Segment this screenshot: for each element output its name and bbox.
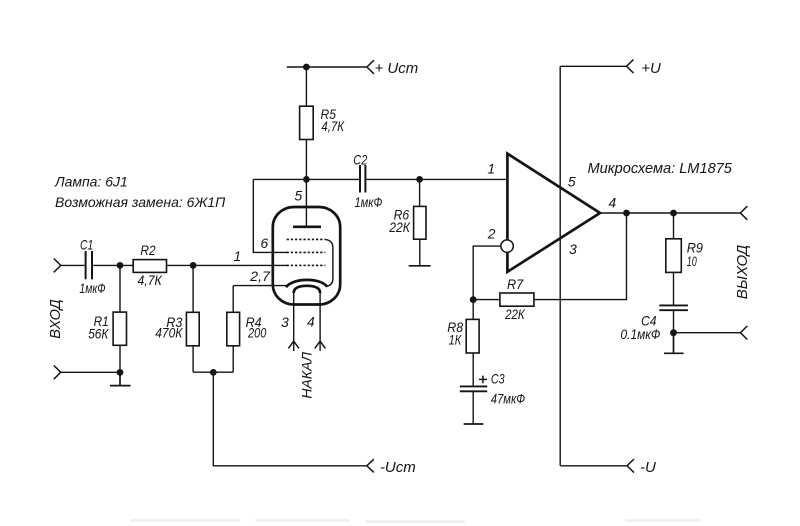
capacitor C4	[659, 305, 688, 310]
wire C2 to node G	[366, 178, 419, 180]
wire R7 to node H	[473, 299, 500, 301]
svg-text:2: 2	[487, 227, 496, 242]
capacitor C3 (electrolytic)	[460, 386, 487, 391]
wire +U	[560, 65, 626, 67]
wire C4 to node K	[673, 310, 675, 333]
tube grid g3 (dashed row)	[287, 238, 326, 240]
wire feedback from node I to R7	[534, 213, 627, 300]
terminal input upper	[54, 259, 61, 273]
svg-text:2,7: 2,7	[249, 269, 271, 284]
terminal -U	[627, 459, 634, 473]
terminal +Ust	[367, 60, 374, 74]
capacitor C2	[360, 165, 365, 193]
svg-text:+U: +U	[641, 60, 661, 77]
node B (R2/R3/grid junction)	[190, 262, 197, 269]
resistor R6	[414, 179, 426, 265]
node K (C4/output lower junction)	[670, 329, 677, 336]
wire R3 bottom to node D	[193, 371, 213, 373]
op-amp U1 triangle	[507, 154, 600, 272]
svg-text:НАКАЛ: НАКАЛ	[299, 352, 315, 399]
wire node B to tube pin 1 (control grid)	[193, 264, 288, 266]
wire -U	[560, 465, 627, 467]
terminal output lower	[740, 326, 747, 340]
wire node K to lower output terminal	[674, 332, 741, 334]
wire R2 to node B	[167, 264, 194, 266]
svg-text:1: 1	[487, 161, 495, 176]
tube anode plate	[293, 225, 321, 228]
node A (C1/R2/R1 junction)	[117, 262, 124, 269]
wire anode line left segment	[253, 178, 359, 180]
wire tube pin 5 (anode lead)	[305, 179, 307, 225]
terminal output upper	[740, 206, 747, 220]
wire R4 bottom to node D	[213, 371, 233, 373]
svg-text:1К: 1К	[449, 333, 462, 348]
node D (R3/R4 junction)	[210, 369, 217, 376]
svg-text:-Uст: -Uст	[380, 459, 416, 476]
svg-text:22К: 22К	[504, 307, 525, 322]
svg-text:47мкФ: 47мкФ	[491, 391, 525, 406]
wire screen grid loop (pin 6)	[253, 179, 288, 252]
svg-text:6: 6	[260, 236, 268, 251]
svg-text:5: 5	[568, 175, 576, 190]
capacitor C1	[86, 251, 92, 279]
svg-text:4,7К: 4,7К	[138, 273, 163, 288]
wire lower input to node C	[61, 371, 120, 373]
C3 polarity plus sign	[479, 376, 487, 384]
tube g3-cathode bracket	[325, 239, 333, 286]
svg-text:22К: 22К	[388, 220, 410, 235]
heater pin 3 arrowhead	[288, 341, 299, 348]
svg-text:3: 3	[281, 315, 289, 330]
svg-text:C3: C3	[491, 372, 505, 387]
wire op-amp output	[600, 212, 740, 214]
svg-text:3: 3	[569, 242, 577, 257]
node J (R9 tap)	[670, 210, 677, 217]
svg-text:200: 200	[247, 325, 266, 340]
tube grid g1 (dashed row)	[287, 264, 326, 266]
wire C3 to ground	[472, 391, 474, 424]
svg-text:R2: R2	[140, 243, 155, 258]
svg-text:4,7К: 4,7К	[321, 119, 344, 134]
svg-text:1мкФ: 1мкФ	[79, 281, 105, 296]
resistor R3	[186, 265, 199, 372]
node E (R5 top)	[303, 64, 310, 71]
svg-text:1: 1	[233, 249, 241, 264]
svg-text:470К: 470К	[155, 325, 183, 340]
heater pin 4 arrowhead	[315, 341, 326, 348]
node G (R6 top)	[416, 176, 423, 183]
node H (pin2/R7/R8 junction)	[470, 296, 477, 303]
tube cathode arc	[286, 280, 327, 287]
wire tube pin 3 (heater)	[293, 293, 295, 351]
svg-text:+ Uст: + Uст	[375, 60, 419, 77]
svg-text:Возможная замена: 6Ж1П: Возможная замена: 6Ж1П	[55, 194, 226, 210]
ground under C4	[664, 333, 684, 354]
wire node G to op-amp pin 1	[420, 178, 508, 180]
wire node D to -Ust terminal	[213, 372, 366, 466]
svg-text:-U: -U	[640, 459, 656, 476]
svg-text:C1: C1	[80, 238, 93, 253]
svg-text:4: 4	[609, 196, 617, 211]
svg-text:Микросхема: LM1875: Микросхема: LM1875	[588, 161, 733, 177]
op-amp pin 2 inversion bubble	[501, 240, 513, 252]
svg-text:ВЫХОД: ВЫХОД	[734, 244, 751, 299]
power rail vertical (+U to -U)	[559, 66, 561, 466]
faint scan artifacts at bottom edge	[130, 519, 700, 523]
svg-text:1мкФ: 1мкФ	[355, 195, 383, 210]
resistor R9	[666, 213, 682, 305]
wire +Ust supply rail	[287, 66, 367, 68]
ground under C3	[464, 423, 484, 425]
svg-text:56К: 56К	[88, 327, 109, 342]
wire input to C1	[61, 264, 85, 266]
node F (R5 bottom / anode line)	[303, 176, 310, 183]
svg-text:0.1мкФ: 0.1мкФ	[621, 327, 661, 342]
wire tube pin 4 (heater)	[319, 293, 321, 351]
tube envelope V1	[273, 207, 340, 305]
resistor R2	[133, 260, 166, 273]
svg-text:10: 10	[687, 254, 697, 269]
svg-text:4: 4	[307, 315, 315, 330]
wire tube cathode pins 2,7	[233, 285, 286, 287]
svg-text:5: 5	[294, 188, 302, 203]
svg-text:Лампа: 6J1: Лампа: 6J1	[54, 174, 128, 190]
wire pin 2 to node H	[473, 246, 501, 300]
tube heater arc	[294, 286, 320, 293]
resistor R7	[500, 293, 534, 306]
wire C1 to node A	[93, 264, 133, 266]
terminal -Ust	[367, 459, 374, 472]
resistor R5	[300, 67, 314, 179]
ground under R1	[110, 372, 131, 385]
tube grid g2 (dashed row)	[287, 251, 326, 253]
node I (feedback tap)	[623, 210, 630, 217]
svg-text:ВХОД: ВХОД	[48, 299, 64, 338]
node C (R1 bottom/ground)	[117, 369, 124, 376]
ground under R6	[409, 265, 431, 267]
resistor R4	[227, 286, 240, 373]
svg-text:R7: R7	[507, 277, 524, 292]
terminal input lower	[54, 365, 61, 379]
svg-text:C2: C2	[353, 153, 367, 168]
resistor R1	[113, 265, 126, 372]
resistor R8	[466, 300, 479, 387]
terminal +U	[627, 60, 634, 74]
